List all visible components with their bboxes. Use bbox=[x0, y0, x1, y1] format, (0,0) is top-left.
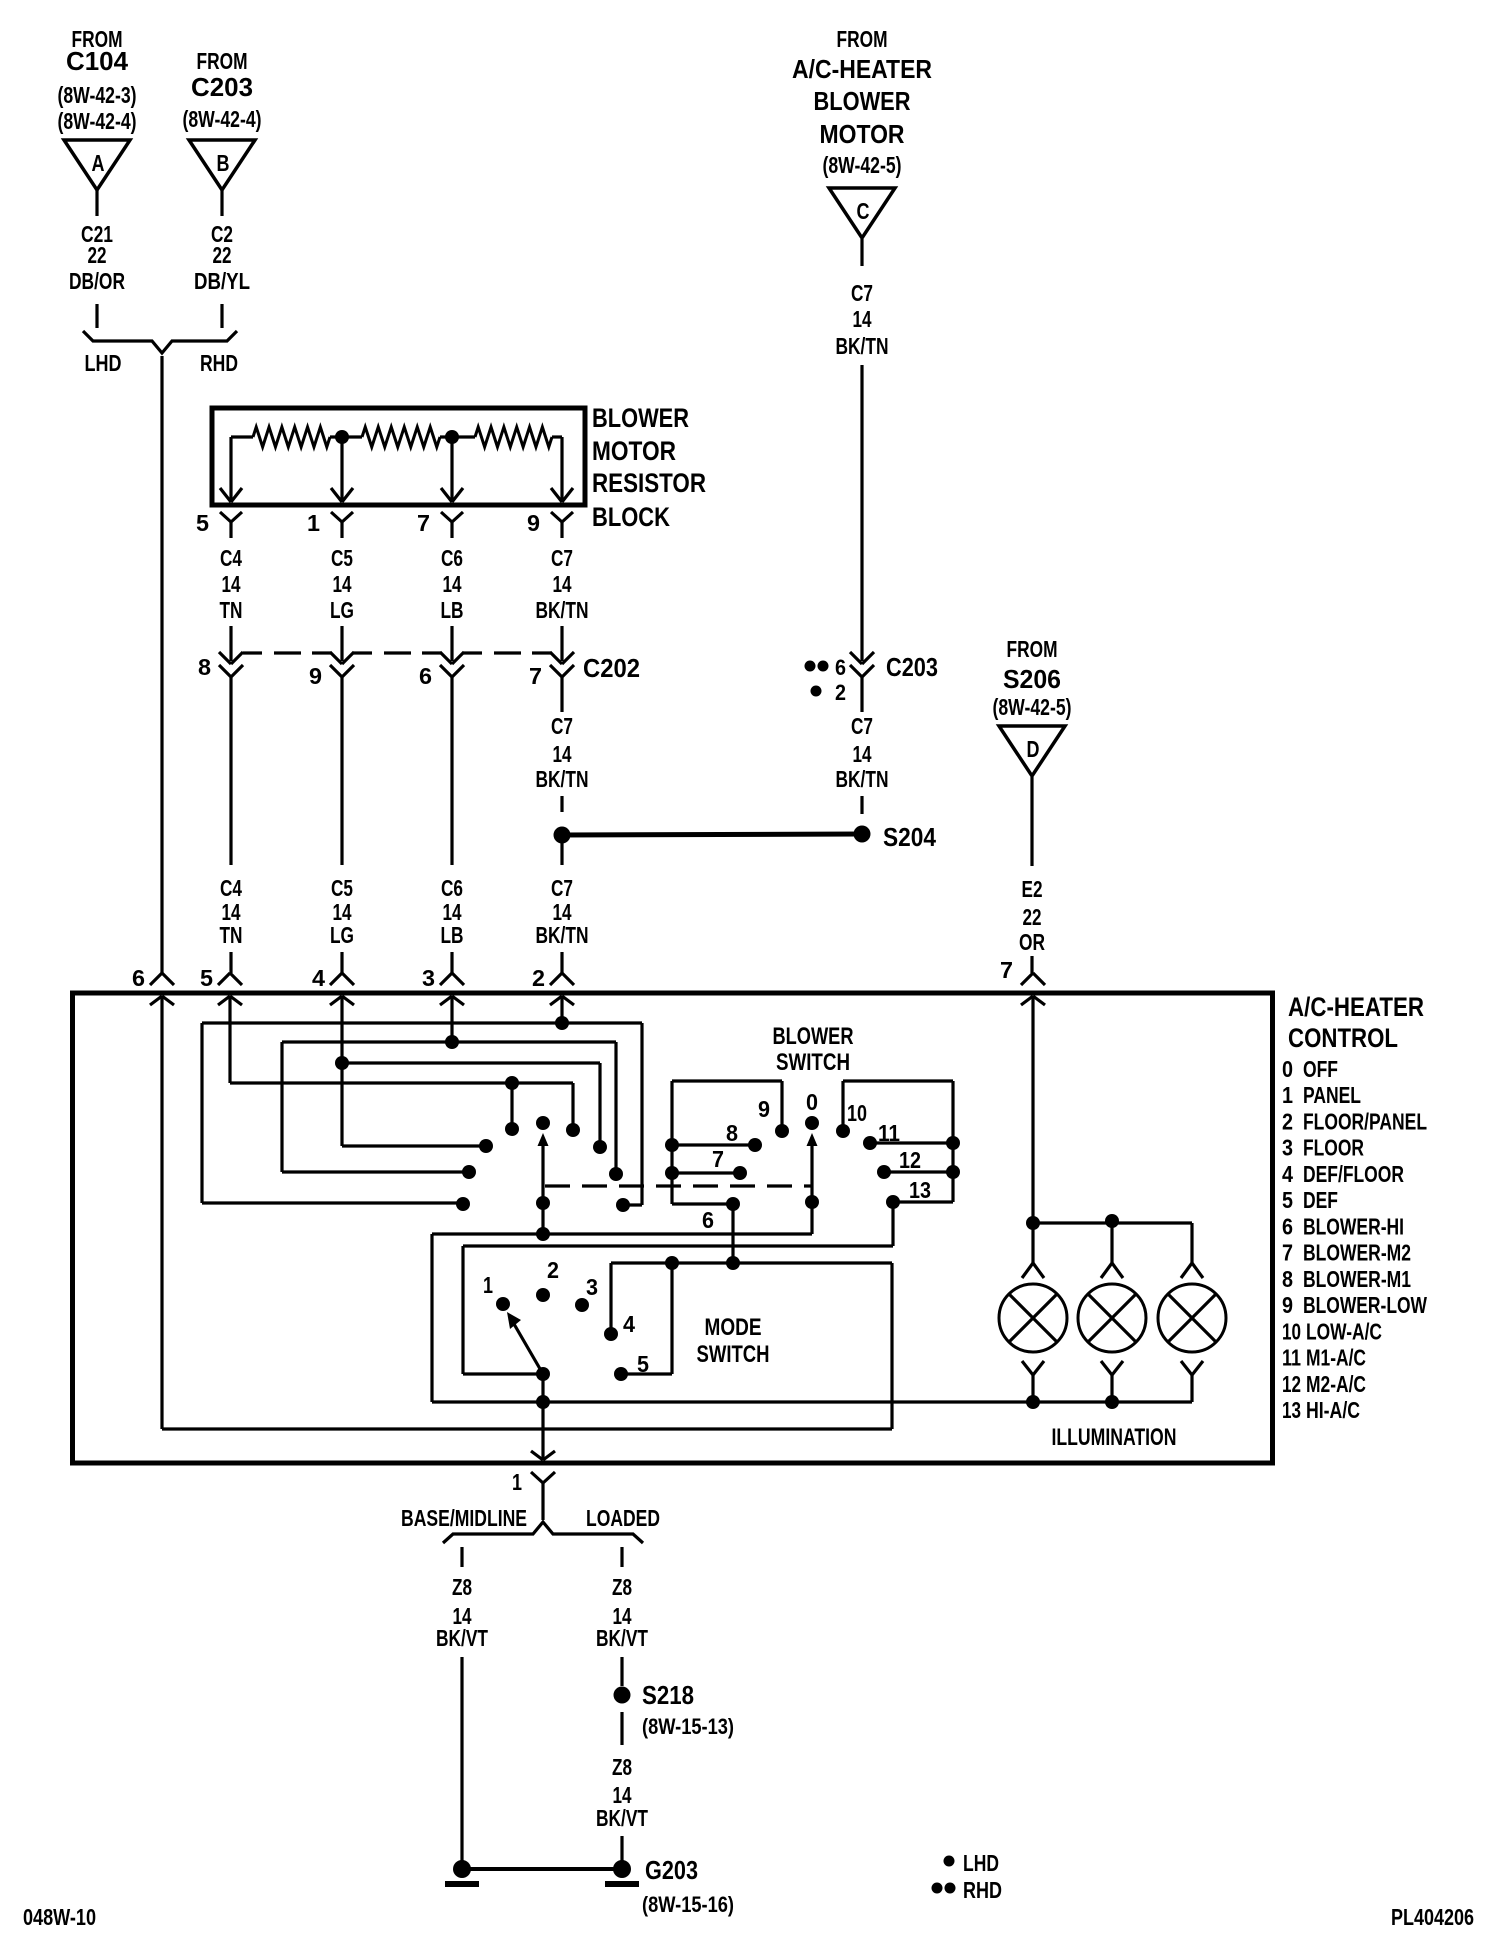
svg-text:C7: C7 bbox=[851, 280, 873, 306]
svg-text:14: 14 bbox=[853, 306, 872, 332]
svg-text:(8W-42-4): (8W-42-4) bbox=[58, 108, 137, 134]
svg-text:C202: C202 bbox=[583, 653, 640, 683]
svg-text:C104: C104 bbox=[66, 46, 129, 76]
svg-text:7: 7 bbox=[417, 510, 430, 536]
svg-text:BLOWER: BLOWER bbox=[592, 403, 689, 433]
svg-text:FROM: FROM bbox=[197, 48, 248, 74]
svg-text:BK/TN: BK/TN bbox=[836, 766, 889, 792]
svg-text:LB: LB bbox=[441, 922, 464, 948]
svg-text:C6: C6 bbox=[441, 545, 463, 571]
svg-text:9: 9 bbox=[758, 1096, 770, 1122]
svg-text:1: 1 bbox=[483, 1272, 493, 1298]
svg-text:13: 13 bbox=[1282, 1397, 1301, 1423]
svg-text:C7: C7 bbox=[551, 713, 573, 739]
svg-text:3: 3 bbox=[586, 1274, 598, 1300]
svg-text:14: 14 bbox=[553, 571, 572, 597]
svg-text:BLOWER-LOW: BLOWER-LOW bbox=[1303, 1292, 1428, 1318]
svg-text:5: 5 bbox=[637, 1351, 649, 1377]
svg-text:BASE/MIDLINE: BASE/MIDLINE bbox=[401, 1505, 527, 1531]
svg-text:A: A bbox=[92, 150, 105, 176]
svg-text:2: 2 bbox=[835, 680, 846, 705]
svg-text:C7: C7 bbox=[851, 713, 873, 739]
svg-text:1: 1 bbox=[1282, 1082, 1293, 1108]
svg-text:BK/VT: BK/VT bbox=[436, 1625, 488, 1651]
svg-text:(8W-15-13): (8W-15-13) bbox=[642, 1714, 734, 1739]
svg-text:HI-A/C: HI-A/C bbox=[1306, 1397, 1360, 1423]
svg-text:M1-A/C: M1-A/C bbox=[1306, 1345, 1366, 1371]
svg-text:8: 8 bbox=[198, 654, 211, 680]
svg-text:14: 14 bbox=[222, 571, 241, 597]
svg-text:11: 11 bbox=[878, 1120, 900, 1146]
svg-text:FROM: FROM bbox=[837, 26, 888, 52]
svg-text:LOW-A/C: LOW-A/C bbox=[1306, 1318, 1382, 1344]
svg-text:C4: C4 bbox=[220, 545, 242, 571]
svg-text:G203: G203 bbox=[645, 1855, 698, 1885]
svg-text:14: 14 bbox=[853, 741, 872, 767]
svg-text:S218: S218 bbox=[642, 1680, 694, 1710]
svg-text:S204: S204 bbox=[883, 822, 936, 852]
svg-text:8: 8 bbox=[1282, 1266, 1293, 1292]
svg-text:FLOOR: FLOOR bbox=[1303, 1135, 1364, 1161]
svg-text:7: 7 bbox=[712, 1146, 724, 1172]
svg-text:S206: S206 bbox=[1003, 664, 1061, 694]
svg-text:8: 8 bbox=[726, 1120, 738, 1146]
svg-text:5: 5 bbox=[196, 510, 209, 536]
svg-text:C7: C7 bbox=[551, 875, 573, 901]
svg-text:2: 2 bbox=[1282, 1108, 1293, 1134]
svg-text:LOADED: LOADED bbox=[586, 1505, 660, 1531]
svg-text:LG: LG bbox=[330, 922, 354, 948]
svg-text:048W-10: 048W-10 bbox=[23, 1904, 96, 1930]
svg-text:PL404206: PL404206 bbox=[1391, 1904, 1474, 1930]
svg-text:7: 7 bbox=[1282, 1240, 1293, 1266]
svg-text:B: B bbox=[217, 150, 230, 176]
svg-text:LHD: LHD bbox=[963, 1850, 999, 1876]
svg-text:10: 10 bbox=[1282, 1318, 1301, 1344]
svg-text:4: 4 bbox=[312, 965, 325, 991]
svg-text:3: 3 bbox=[422, 965, 435, 991]
svg-text:SWITCH: SWITCH bbox=[776, 1049, 850, 1076]
svg-text:6: 6 bbox=[702, 1207, 714, 1233]
svg-text:C203: C203 bbox=[191, 72, 253, 102]
svg-text:A/C-HEATER: A/C-HEATER bbox=[792, 54, 932, 84]
svg-text:12: 12 bbox=[899, 1147, 921, 1173]
svg-text:BK/TN: BK/TN bbox=[536, 922, 589, 948]
svg-text:DB/YL: DB/YL bbox=[194, 268, 250, 294]
svg-text:FLOOR/PANEL: FLOOR/PANEL bbox=[1303, 1108, 1427, 1134]
svg-text:C7: C7 bbox=[551, 545, 573, 571]
svg-text:BLOWER-HI: BLOWER-HI bbox=[1303, 1213, 1404, 1239]
svg-text:RESISTOR: RESISTOR bbox=[592, 468, 706, 498]
svg-text:14: 14 bbox=[553, 741, 572, 767]
svg-text:C5: C5 bbox=[331, 545, 353, 571]
svg-text:7: 7 bbox=[529, 663, 542, 689]
svg-text:LHD: LHD bbox=[85, 350, 122, 376]
svg-text:TN: TN bbox=[220, 922, 243, 948]
svg-text:Z8: Z8 bbox=[452, 1574, 472, 1600]
svg-text:BK/TN: BK/TN bbox=[536, 766, 589, 792]
svg-text:Z8: Z8 bbox=[612, 1754, 632, 1780]
svg-text:14: 14 bbox=[443, 571, 462, 597]
svg-text:FROM: FROM bbox=[1007, 636, 1058, 662]
svg-text:BLOWER: BLOWER bbox=[814, 86, 911, 116]
svg-text:C6: C6 bbox=[441, 875, 463, 901]
svg-text:C: C bbox=[857, 198, 870, 224]
svg-text:DEF/FLOOR: DEF/FLOOR bbox=[1303, 1161, 1404, 1187]
svg-text:BK/VT: BK/VT bbox=[596, 1805, 648, 1831]
svg-text:14: 14 bbox=[333, 571, 352, 597]
svg-text:1: 1 bbox=[307, 510, 320, 536]
svg-text:1: 1 bbox=[512, 1469, 522, 1495]
svg-text:4: 4 bbox=[1282, 1161, 1293, 1187]
svg-text:BLOWER: BLOWER bbox=[773, 1023, 854, 1050]
svg-text:6: 6 bbox=[419, 663, 432, 689]
svg-text:C4: C4 bbox=[220, 875, 242, 901]
svg-text:(8W-15-16): (8W-15-16) bbox=[642, 1892, 734, 1917]
svg-text:BLOWER-M2: BLOWER-M2 bbox=[1303, 1240, 1411, 1266]
svg-text:(8W-42-4): (8W-42-4) bbox=[183, 106, 262, 132]
svg-text:LB: LB bbox=[441, 597, 464, 623]
svg-text:4: 4 bbox=[623, 1311, 635, 1337]
svg-text:2: 2 bbox=[547, 1257, 559, 1283]
svg-text:11: 11 bbox=[1282, 1345, 1301, 1371]
svg-text:5: 5 bbox=[200, 965, 213, 991]
svg-text:OFF: OFF bbox=[1303, 1056, 1338, 1082]
svg-text:ILLUMINATION: ILLUMINATION bbox=[1052, 1424, 1177, 1451]
svg-text:Z8: Z8 bbox=[612, 1574, 632, 1600]
svg-text:DB/OR: DB/OR bbox=[69, 268, 125, 294]
svg-text:(8W-42-5): (8W-42-5) bbox=[823, 152, 902, 178]
svg-text:12: 12 bbox=[1282, 1371, 1301, 1397]
svg-text:2: 2 bbox=[532, 965, 545, 991]
svg-text:6: 6 bbox=[1282, 1213, 1293, 1239]
svg-text:10: 10 bbox=[847, 1100, 867, 1126]
svg-text:3: 3 bbox=[1282, 1135, 1293, 1161]
svg-text:MOTOR: MOTOR bbox=[820, 119, 905, 149]
svg-text:5: 5 bbox=[1282, 1187, 1293, 1213]
svg-text:(8W-42-3): (8W-42-3) bbox=[58, 82, 137, 108]
svg-text:BLOWER-M1: BLOWER-M1 bbox=[1303, 1266, 1411, 1292]
svg-text:BK/TN: BK/TN bbox=[836, 333, 889, 359]
svg-text:OR: OR bbox=[1019, 929, 1045, 955]
svg-text:CONTROL: CONTROL bbox=[1288, 1023, 1398, 1053]
svg-text:6: 6 bbox=[835, 655, 846, 680]
svg-text:BK/VT: BK/VT bbox=[596, 1625, 648, 1651]
svg-text:M2-A/C: M2-A/C bbox=[1306, 1371, 1366, 1397]
svg-text:MODE: MODE bbox=[705, 1314, 762, 1341]
svg-text:(8W-42-5): (8W-42-5) bbox=[993, 694, 1072, 720]
svg-text:9: 9 bbox=[309, 663, 322, 689]
svg-text:BK/TN: BK/TN bbox=[536, 597, 589, 623]
svg-text:DEF: DEF bbox=[1303, 1187, 1338, 1213]
svg-text:0: 0 bbox=[806, 1089, 818, 1115]
svg-text:13: 13 bbox=[909, 1177, 931, 1203]
svg-text:22: 22 bbox=[1023, 904, 1042, 930]
svg-text:PANEL: PANEL bbox=[1303, 1082, 1361, 1108]
svg-text:LG: LG bbox=[330, 597, 354, 623]
svg-text:SWITCH: SWITCH bbox=[697, 1341, 770, 1368]
svg-text:BLOCK: BLOCK bbox=[592, 502, 670, 532]
svg-text:7: 7 bbox=[1000, 957, 1013, 983]
svg-text:MOTOR: MOTOR bbox=[592, 436, 676, 466]
svg-text:D: D bbox=[1027, 736, 1040, 762]
svg-text:TN: TN bbox=[220, 597, 243, 623]
svg-text:22: 22 bbox=[213, 242, 232, 268]
svg-text:22: 22 bbox=[88, 242, 107, 268]
svg-text:A/C-HEATER: A/C-HEATER bbox=[1288, 992, 1424, 1022]
svg-text:6: 6 bbox=[132, 965, 145, 991]
svg-text:E2: E2 bbox=[1022, 876, 1043, 902]
svg-text:C203: C203 bbox=[886, 652, 938, 682]
svg-text:C5: C5 bbox=[331, 875, 353, 901]
svg-text:0: 0 bbox=[1282, 1056, 1293, 1082]
svg-text:RHD: RHD bbox=[963, 1877, 1002, 1903]
svg-text:9: 9 bbox=[527, 510, 540, 536]
svg-text:RHD: RHD bbox=[200, 350, 238, 376]
svg-text:9: 9 bbox=[1282, 1292, 1293, 1318]
